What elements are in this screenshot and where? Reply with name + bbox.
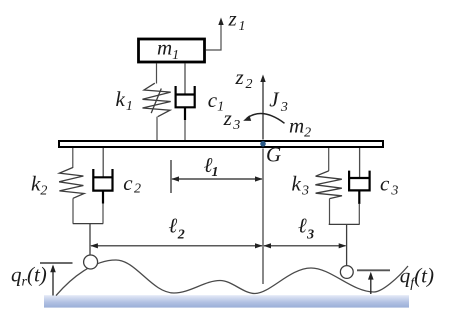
spring k3 <box>315 171 342 199</box>
svg-text:k1: k1 <box>116 87 133 114</box>
svg-text:m2: m2 <box>289 114 311 141</box>
wire spring k3 to axle bar <box>329 199 331 225</box>
svg-text:ℓ1: ℓ1 <box>204 153 218 180</box>
wire m1 to spring k1 <box>156 64 158 84</box>
node G dot <box>260 141 266 147</box>
ground <box>44 295 409 307</box>
qf arrow <box>370 274 372 295</box>
z1 arrowhead <box>218 18 223 26</box>
right wheel strut <box>346 224 348 265</box>
wire damper c2 to axle bar <box>102 204 104 224</box>
damper c3 <box>349 171 370 204</box>
svg-text:k3: k3 <box>292 172 310 199</box>
wire beam to damper c3 <box>359 148 361 178</box>
z3 curved arrow <box>247 114 285 124</box>
wire spring k2 to axle bar <box>72 198 74 223</box>
qf tick <box>357 269 390 271</box>
wire beam to damper c2 <box>102 148 104 177</box>
svg-text:qf(t): qf(t) <box>400 264 434 292</box>
qr arrow <box>52 266 54 296</box>
wire damper c3 to axle bar <box>358 204 360 225</box>
left wheel <box>84 255 98 269</box>
svg-text:c1: c1 <box>208 88 224 115</box>
centerline below G <box>262 149 264 285</box>
svg-text:J3: J3 <box>269 87 288 115</box>
svg-text:z3: z3 <box>223 106 241 133</box>
svg-text:k2: k2 <box>31 172 47 199</box>
dimension l1 tick <box>170 160 172 193</box>
road profile q(x) <box>56 260 408 296</box>
z2 axis arrow <box>262 80 264 140</box>
dimension l3 line <box>264 245 346 247</box>
mass m1 box <box>139 39 205 62</box>
left wheel strut <box>89 224 91 256</box>
svg-text:ℓ2: ℓ2 <box>169 214 185 243</box>
dimension l1 line <box>172 178 262 180</box>
damper c2 <box>93 169 112 204</box>
svg-text:z1: z1 <box>228 7 246 35</box>
svg-text:c3: c3 <box>380 172 398 199</box>
svg-text:z2: z2 <box>235 65 253 92</box>
svg-text:ℓ3: ℓ3 <box>298 214 314 243</box>
wire beam to spring k2 <box>72 148 74 168</box>
svg-text:G: G <box>266 143 281 167</box>
wire spring k1 to beam <box>156 117 158 140</box>
left axle bar <box>73 223 103 225</box>
svg-text:qr(t): qr(t) <box>11 263 47 290</box>
spring k1 <box>143 83 171 117</box>
right axle bar <box>329 223 360 225</box>
z1 leader wire <box>206 21 221 50</box>
wire beam to spring k3 <box>328 148 330 171</box>
spring k2 <box>59 168 84 199</box>
damper c1 <box>176 86 195 120</box>
right wheel <box>340 266 353 279</box>
beam m2 <box>59 141 383 147</box>
svg-text:c2: c2 <box>123 171 141 197</box>
wire m1 to damper c1 <box>184 64 186 95</box>
dimension l2 line <box>91 245 262 247</box>
qr tick <box>40 262 73 264</box>
wire damper c1 to beam <box>184 120 186 140</box>
